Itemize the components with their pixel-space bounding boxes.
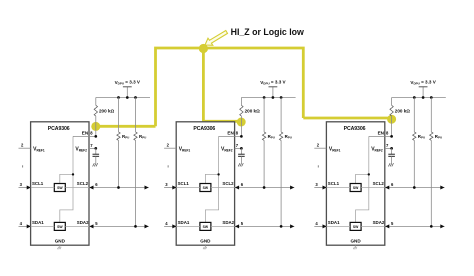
wire EN bus top rail (yellow) <box>156 48 304 126</box>
svg-text:200 kΩ: 200 kΩ <box>245 109 260 114</box>
wire SDA internal right U3 <box>361 225 385 227</box>
svg-text:5: 5 <box>241 221 244 226</box>
switch SW (SDA) U3 <box>350 222 361 230</box>
wire internal EN rail U1 <box>60 136 74 222</box>
svg-text:3: 3 <box>315 182 318 187</box>
wire EN branch to U1 (yellow) <box>96 125 156 128</box>
node SDA2/R_PU junction block 3 <box>430 225 433 228</box>
svg-text:SDA1: SDA1 <box>178 220 190 225</box>
ground pin below U3 <box>353 245 357 249</box>
svg-text:SW: SW <box>203 225 209 229</box>
node rail junction supply block 1 <box>126 96 129 99</box>
svg-text:7: 7 <box>386 143 389 148</box>
pin V_REF2 stub 7 block 1 <box>89 147 96 149</box>
resistor R_PU (SCL) block 3 <box>413 98 416 188</box>
svg-text:3: 3 <box>165 182 168 187</box>
svg-text:SW: SW <box>57 225 63 229</box>
capacitor on V_REF2 block 2 <box>238 148 245 163</box>
resistor R_PU (SCL) block 1 <box>117 98 120 188</box>
svg-text:RPU: RPU <box>268 134 275 140</box>
ground pin below U1 <box>57 245 61 249</box>
wire SCL internal left U1 <box>31 187 55 189</box>
wire SDA internal left U3 <box>326 225 350 227</box>
node EN U3 (yellow dot) <box>387 115 396 124</box>
pin SCL1 stub 3 block 3 <box>314 186 326 190</box>
svg-text:SW: SW <box>353 186 359 190</box>
op IC body PCA9306 U2 <box>176 122 234 245</box>
wire internal EN rail U2 <box>205 136 219 222</box>
svg-text:8: 8 <box>386 131 389 136</box>
faint mark left of box block 2 <box>168 165 169 167</box>
svg-text:200 kΩ: 200 kΩ <box>395 109 410 114</box>
svg-text:SDA1: SDA1 <box>32 220 44 225</box>
callout arrow HI_Z (yellow block arrow) <box>205 31 228 46</box>
node V_REF2 junction block 2 <box>240 147 243 150</box>
node SCL2/R_PU junction block 1 <box>117 186 120 189</box>
svg-text:SCL1: SCL1 <box>178 181 190 186</box>
wire SCL2 bus block 2 <box>235 186 295 190</box>
wire SCL2 bus block 3 <box>385 186 445 190</box>
node SDA2/R_PU junction block 1 <box>134 225 137 228</box>
wire SDA internal right U1 <box>65 225 89 227</box>
svg-text:VDPU = 3.3 V: VDPU = 3.3 V <box>260 80 286 86</box>
svg-text:SDA2: SDA2 <box>77 220 89 225</box>
node rail junction R_PU1 block 2 <box>263 96 266 99</box>
wire pull-up rail block 1 <box>96 97 150 99</box>
switch SW (SDA) U2 <box>200 222 211 230</box>
svg-text:PCA9306: PCA9306 <box>193 126 215 132</box>
supply net V_DPU block 3 <box>419 87 428 98</box>
svg-text:EN: EN <box>378 130 385 135</box>
capacitor on V_REF2 block 3 <box>388 148 395 163</box>
node EN top junction (yellow dot) <box>199 44 208 53</box>
resistor 200 kOhm block 3 <box>390 98 393 137</box>
svg-text:SW: SW <box>203 186 209 190</box>
pin EN stub 8 block 1 <box>73 135 96 137</box>
capacitor on V_REF2 block 1 <box>93 148 100 163</box>
svg-text:EN: EN <box>82 130 89 135</box>
svg-text:RPU: RPU <box>122 134 129 140</box>
node rail junction R_PU2 block 1 <box>134 96 137 99</box>
svg-text:4: 4 <box>315 221 318 226</box>
node SDA2/R_PU junction block 2 <box>280 225 283 228</box>
node EN U1 (yellow dot) <box>91 122 100 131</box>
svg-text:2: 2 <box>317 143 320 148</box>
node rail junction R_PU1 block 3 <box>413 96 416 99</box>
pin V_REF1 stub 2 block 2 <box>164 147 176 149</box>
svg-text:4: 4 <box>165 221 168 226</box>
wire SDA2 bus block 2 <box>235 224 295 228</box>
svg-text:VDPU = 3.3 V: VDPU = 3.3 V <box>410 80 436 86</box>
node V_REF2 junction block 1 <box>94 147 97 150</box>
svg-text:SCL1: SCL1 <box>328 181 340 186</box>
svg-text:SCL1: SCL1 <box>32 181 44 186</box>
op IC body PCA9306 U1 <box>31 122 89 245</box>
svg-text:RPU: RPU <box>435 134 442 140</box>
svg-text:SDA1: SDA1 <box>328 220 340 225</box>
svg-text:2: 2 <box>21 143 24 148</box>
wire EN branch to U2 (yellow) <box>203 48 241 121</box>
faint mark left of box block 1 <box>22 165 23 167</box>
pin V_REF2 stub 7 block 2 <box>235 147 242 149</box>
node SCL2/R_PU junction block 2 <box>263 186 266 189</box>
op IC body PCA9306 U3 <box>326 122 384 245</box>
node rail junction supply block 2 <box>272 96 275 99</box>
svg-text:SCL2: SCL2 <box>373 181 385 186</box>
node EN junction block 3 <box>390 135 393 138</box>
switch SW (SCL) U2 <box>200 184 211 192</box>
node rail junction R_PU1 block 1 <box>117 96 120 99</box>
pin SDA1 stub 4 block 1 <box>19 224 31 228</box>
svg-text:200 kΩ: 200 kΩ <box>99 109 114 114</box>
svg-text:VDPU = 3.3 V: VDPU = 3.3 V <box>115 80 141 86</box>
wire SDA internal left U1 <box>31 225 55 227</box>
svg-text:SDA2: SDA2 <box>222 220 234 225</box>
pin EN stub 8 block 3 <box>369 135 392 137</box>
svg-text:3: 3 <box>20 182 23 187</box>
svg-text:GND: GND <box>200 239 211 244</box>
svg-text:GND: GND <box>350 239 361 244</box>
wire SCL internal right U3 <box>361 187 385 189</box>
pin V_REF1 stub 2 block 1 <box>19 147 31 149</box>
svg-text:8: 8 <box>90 131 93 136</box>
switch SW (SCL) U1 <box>54 184 65 192</box>
supply net V_DPU block 1 <box>123 87 132 98</box>
svg-text:5: 5 <box>95 221 98 226</box>
wire SDA internal left U2 <box>176 225 200 227</box>
resistor R_PU (SDA) block 1 <box>134 98 137 227</box>
svg-text:6: 6 <box>241 182 244 187</box>
pin V_REF1 stub 2 block 3 <box>314 147 326 149</box>
svg-text:6: 6 <box>391 182 394 187</box>
svg-text:SW: SW <box>57 186 63 190</box>
svg-text:7: 7 <box>236 143 239 148</box>
svg-text:RPU: RPU <box>418 134 425 140</box>
supply net V_DPU block 2 <box>269 87 278 98</box>
wire EN branch to U3 (yellow) <box>303 117 391 120</box>
wire SCL2 bus block 1 <box>89 186 149 190</box>
svg-text:GND: GND <box>55 239 66 244</box>
svg-text:PCA9306: PCA9306 <box>48 126 70 132</box>
svg-text:HI_Z or Logic low: HI_Z or Logic low <box>231 27 304 37</box>
pin SDA1 stub 4 block 3 <box>314 224 326 228</box>
resistor 200 kOhm block 1 <box>94 98 97 137</box>
svg-text:RPU: RPU <box>285 134 292 140</box>
svg-text:8: 8 <box>236 131 239 136</box>
node rail junction supply block 3 <box>422 96 425 99</box>
node EN U2 (yellow dot) <box>237 118 246 127</box>
svg-text:7: 7 <box>90 143 93 148</box>
svg-text:SCL2: SCL2 <box>222 181 234 186</box>
wire SCL internal left U3 <box>326 187 350 189</box>
wire SDA2 bus block 3 <box>385 224 445 228</box>
svg-text:6: 6 <box>95 182 98 187</box>
pin V_REF2 stub 7 block 3 <box>385 147 392 149</box>
svg-text:RPU: RPU <box>139 134 146 140</box>
node EN junction block 1 <box>94 135 97 138</box>
svg-text:5: 5 <box>391 221 394 226</box>
wire SDA internal right U2 <box>211 225 235 227</box>
wire SCL internal left U2 <box>176 187 200 189</box>
faint mark left of box block 3 <box>318 165 319 167</box>
node SCL2/R_PU junction block 3 <box>413 186 416 189</box>
wire internal EN rail U3 <box>356 136 370 222</box>
resistor R_PU (SDA) block 3 <box>430 98 433 227</box>
resistor R_PU (SCL) block 2 <box>262 98 265 188</box>
node rail junction R_PU2 block 3 <box>430 96 433 99</box>
node EN junction block 2 <box>240 135 243 138</box>
pin SDA1 stub 4 block 2 <box>164 224 176 228</box>
switch SW (SDA) U1 <box>54 222 65 230</box>
ground below capacitor block 1 <box>93 163 98 166</box>
svg-text:4: 4 <box>20 221 23 226</box>
svg-text:SCL2: SCL2 <box>77 181 89 186</box>
resistor R_PU (SDA) block 2 <box>279 98 282 227</box>
svg-text:PCA9306: PCA9306 <box>344 126 366 132</box>
node V_REF2 junction block 3 <box>390 147 393 150</box>
switch SW (SCL) U3 <box>350 184 361 192</box>
pin SCL1 stub 3 block 1 <box>19 186 31 190</box>
wire SCL internal right U1 <box>65 187 89 189</box>
svg-text:SDA2: SDA2 <box>373 220 385 225</box>
resistor 200 kOhm block 2 <box>240 98 243 137</box>
svg-text:SW: SW <box>353 225 359 229</box>
ground pin below U2 <box>203 245 207 249</box>
node rail junction R_PU2 block 2 <box>280 96 283 99</box>
svg-text:2: 2 <box>167 143 170 148</box>
wire pull-up rail block 3 <box>392 97 446 99</box>
pin SCL1 stub 3 block 2 <box>164 186 176 190</box>
wire pull-up rail block 2 <box>241 97 295 99</box>
svg-text:EN: EN <box>227 130 234 135</box>
ground below capacitor block 3 <box>388 163 393 166</box>
ground below capacitor block 2 <box>238 163 243 166</box>
pin EN stub 8 block 2 <box>219 135 242 137</box>
wire SCL internal right U2 <box>211 187 235 189</box>
wire SDA2 bus block 1 <box>89 224 149 228</box>
